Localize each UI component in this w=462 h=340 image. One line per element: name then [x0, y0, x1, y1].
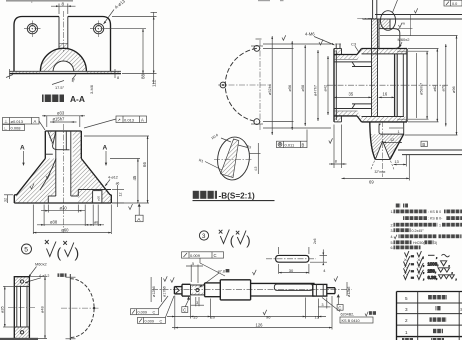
svg-text:2x6: 2x6	[313, 238, 317, 244]
svg-text:6.: 6.	[391, 246, 394, 250]
plate outline	[14, 17, 111, 72]
title	[193, 191, 218, 199]
right phi label	[346, 282, 348, 296]
svg-text:=: =	[411, 255, 414, 260]
svg-text:ø48: ø48	[40, 306, 45, 313]
bore	[55, 131, 57, 196]
svg-text:88: 88	[141, 73, 146, 79]
detail balloon B	[380, 11, 395, 31]
svg-text:ø7.8: ø7.8	[218, 269, 225, 273]
svg-text:3): 3)	[434, 241, 437, 245]
svg-text:(: (	[57, 245, 62, 261]
svg-text:0.013: 0.013	[124, 117, 135, 122]
bearing box	[313, 284, 327, 296]
svg-text:ø15h7: ø15h7	[53, 117, 66, 122]
hole left	[27, 24, 37, 34]
svg-text:(: (	[230, 233, 235, 248]
bearing label	[322, 298, 340, 312]
svg-text:100S,: 100S,	[428, 262, 439, 267]
svg-text:0.009: 0.009	[138, 311, 148, 315]
datum A	[135, 215, 143, 222]
svg-text:ø62: ø62	[432, 85, 437, 92]
svg-text:6.3S,: 6.3S,	[428, 275, 438, 280]
svg-text:66: 66	[142, 162, 147, 167]
bottom dims	[47, 205, 49, 213]
svg-text:): )	[246, 233, 250, 248]
tol box perpendicular	[3, 118, 40, 125]
svg-text:112: 112	[152, 79, 157, 87]
ring outline	[14, 277, 29, 340]
svg-text:12: 12	[119, 193, 123, 197]
datum C left	[187, 296, 190, 299]
svg-text:ø56: ø56	[287, 85, 292, 92]
svg-text:ø52h6: ø52h6	[267, 84, 272, 95]
hole right	[94, 24, 104, 34]
svg-text:13: 13	[395, 160, 399, 164]
svg-text:4.5: 4.5	[254, 166, 258, 171]
chamfer C3 diagonals	[357, 49, 362, 55]
svg-text:ø20: ø20	[97, 195, 101, 201]
svg-text:4.: 4.	[391, 235, 394, 239]
svg-text:0.009: 0.009	[145, 319, 155, 323]
svg-text:15: 15	[193, 314, 198, 319]
svg-text:ø8: ø8	[94, 220, 99, 225]
svg-text:ø58m7: ø58m7	[419, 83, 424, 95]
dim 69	[408, 155, 410, 181]
section 5 long	[251, 282, 315, 284]
phi7.8 keyway box	[191, 285, 205, 295]
curved inner cone line	[40, 159, 56, 191]
svg-text:A: A	[103, 145, 108, 152]
svg-text:ø0.013: ø0.013	[11, 119, 24, 124]
svg-text:16: 16	[383, 92, 388, 97]
svg-text:B: B	[422, 142, 425, 147]
svg-text:ø33: ø33	[57, 111, 65, 116]
stem to top edge	[372, 0, 374, 19]
plate base lines	[10, 70, 122, 72]
groove centerline cross	[357, 17, 376, 19]
svg-text:69: 69	[369, 179, 374, 184]
leaders	[221, 138, 231, 142]
svg-text:5: 5	[192, 262, 194, 266]
svg-text:3: 3	[322, 303, 324, 307]
svg-text:13: 13	[315, 315, 320, 320]
svg-text:1.: 1.	[391, 210, 394, 214]
svg-text:,: ,	[436, 255, 437, 260]
flange	[14, 194, 17, 196]
section 3	[204, 283, 206, 297]
svg-text:ø17h6: ø17h6	[162, 286, 166, 297]
svg-text:): )	[75, 245, 80, 261]
center slot	[58, 17, 60, 49]
svg-text:5.: 5.	[391, 241, 394, 245]
part outline	[45, 130, 81, 132]
M6 tapped hole in collar	[335, 44, 337, 49]
svg-text:1: 1	[398, 130, 400, 134]
top right cut tolerance box	[444, 0, 462, 6]
svg-text:,: ,	[456, 277, 457, 282]
svg-text:ø35: ø35	[0, 306, 4, 313]
svg-text:ø60: ø60	[61, 227, 69, 232]
svg-text:C: C	[214, 253, 217, 258]
small dim right	[249, 153, 261, 155]
svg-text:=: =	[411, 263, 414, 268]
title 단면도 A-A	[42, 95, 64, 103]
svg-text:30: 30	[289, 268, 294, 273]
svg-text:HrC50(: HrC50(	[413, 241, 425, 245]
svg-text:ø42: ø42	[323, 85, 328, 92]
long horizontal lines to edge	[398, 149, 462, 151]
svg-text:32°max: 32°max	[375, 170, 386, 174]
right stub	[327, 287, 335, 289]
svg-text:ø12h6: ø12h6	[152, 286, 156, 297]
svg-text:0.0: 0.0	[452, 2, 457, 6]
web / flange column with neck above	[371, 19, 373, 117]
svg-text:12: 12	[390, 138, 394, 142]
svg-text:: KS B 0: : KS B 0	[428, 210, 441, 214]
symbol equivalence lines	[405, 251, 450, 260]
svg-text:C3: C3	[351, 41, 357, 46]
shaft profile	[173, 287, 175, 294]
svg-text:1: 1	[405, 330, 408, 335]
svg-text:96: 96	[266, 314, 271, 319]
dim 3 right groove	[326, 298, 328, 309]
svg-text:=: =	[411, 276, 414, 281]
dim 35 bore	[334, 96, 372, 98]
svg-text:KS B 0410: KS B 0410	[342, 319, 360, 323]
left dim stack	[271, 36, 273, 135]
svg-text:126: 126	[256, 323, 264, 328]
svg-text:0.009: 0.009	[190, 253, 201, 258]
svg-text:20: 20	[211, 314, 216, 319]
svg-text:ø38: ø38	[50, 220, 58, 225]
svg-text:ø70: ø70	[440, 84, 445, 92]
svg-text:25S,: 25S,	[428, 268, 437, 273]
svg-text:32: 32	[3, 198, 7, 202]
svg-text:,: ,	[423, 277, 424, 282]
axis	[152, 289, 352, 291]
svg-text:0.011: 0.011	[285, 143, 295, 148]
svg-text:⊥: ⊥	[4, 119, 8, 124]
cut-off border top-left	[6, 0, 73, 2]
concentricity box	[277, 141, 308, 147]
bore lines	[334, 61, 372, 63]
svg-text:∟: ∟	[4, 126, 8, 131]
svg-text:A-A: A-A	[70, 94, 85, 104]
svg-text:45: 45	[132, 175, 137, 180]
svg-text:4-ø12: 4-ø12	[108, 175, 118, 179]
thread section verticals	[394, 54, 396, 117]
svg-text:ø47h7: ø47h7	[313, 85, 318, 96]
dome	[40, 48, 86, 71]
svg-text:C: C	[183, 308, 186, 313]
top/bottom wall hatch	[334, 49, 407, 60]
dim 3 small	[195, 297, 197, 306]
groove hatch right of neck	[379, 20, 390, 29]
right dim stack	[416, 53, 418, 118]
datum B box	[421, 141, 427, 146]
dim 8 top	[58, 4, 60, 15]
svg-text:=: =	[411, 269, 414, 274]
svg-text:C: C	[153, 311, 156, 315]
svg-text:: KS B 0-: : KS B 0-	[428, 217, 443, 221]
svg-text:A: A	[20, 145, 25, 152]
svg-text:B: B	[302, 143, 305, 148]
dim 12	[383, 141, 402, 143]
section 4 big	[219, 280, 221, 300]
svg-text:3: 3	[202, 233, 206, 240]
svg-text:3.: 3.	[391, 229, 394, 233]
left rotated diameter labels	[150, 277, 152, 302]
keyway plan view above	[276, 255, 309, 262]
svg-text:,: ,	[449, 263, 450, 268]
datum C right	[337, 294, 340, 297]
svg-text:M60x2: M60x2	[398, 37, 411, 42]
svg-text:8: 8	[335, 160, 337, 164]
tol box runout right	[84, 116, 147, 128]
svg-text:4-ø3.2: 4-ø3.2	[39, 274, 49, 278]
extension lines left	[263, 47, 294, 49]
dim 32 left edge	[7, 195, 9, 203]
sleeve outer	[362, 48, 408, 50]
svg-text:2: 2	[405, 318, 408, 323]
cone slants	[17, 159, 46, 195]
svg-text:17.5°: 17.5°	[55, 85, 65, 90]
dim 1 groove	[389, 127, 403, 129]
cut-off smudges top	[258, 0, 270, 2]
svg-text:8: 8	[62, 1, 65, 6]
svg-text:M60x2: M60x2	[35, 262, 47, 267]
axis centerline	[327, 84, 448, 86]
svg-text:5: 5	[405, 296, 408, 301]
svg-text:,: ,	[452, 270, 453, 275]
dim 45 / 66	[110, 158, 140, 160]
svg-text:ø58: ø58	[300, 85, 305, 92]
svg-text:ø30: ø30	[60, 206, 68, 211]
svg-text:3-M8: 3-M8	[89, 85, 94, 94]
roughness ticks	[30, 184, 34, 190]
svg-text:ø12h6: ø12h6	[347, 287, 351, 297]
svg-text:8: 8	[117, 75, 119, 80]
bottom notch and cone	[403, 122, 405, 134]
svg-text:0.008: 0.008	[11, 125, 22, 130]
svg-text:↗: ↗	[117, 118, 121, 123]
svg-text:C: C	[338, 306, 341, 311]
tol box 0.008	[3, 125, 25, 131]
hatches	[48, 132, 56, 147]
svg-text:A: A	[141, 117, 144, 122]
svg-text:A: A	[34, 119, 37, 124]
small roughness checks	[164, 276, 168, 281]
half disc side view	[69, 274, 71, 340]
svg-text:4-M6: 4-M6	[305, 32, 315, 37]
svg-text:C: C	[160, 319, 163, 323]
svg-text:2.: 2.	[391, 223, 394, 227]
dim 5 above keyway	[190, 265, 192, 283]
boss inner step	[53, 132, 64, 150]
keyway slot on shaft	[274, 284, 313, 290]
hub outline	[334, 54, 357, 56]
svg-text:1: 1	[439, 223, 441, 227]
dome+slot hatch	[40, 43, 86, 71]
dim 8 left	[333, 125, 335, 169]
dim 13	[394, 164, 407, 166]
svg-text:3: 3	[196, 301, 198, 305]
base hatch	[10, 72, 40, 74]
svg-text:0.2x45°: 0.2x45°	[412, 229, 425, 233]
right dims 88 / 112	[112, 16, 157, 18]
svg-text:ø96: ø96	[451, 86, 456, 93]
svg-text:5: 5	[24, 247, 28, 254]
dim 12 recess	[112, 189, 124, 191]
svg-text:3: 3	[405, 307, 408, 312]
left tolerance boxes	[131, 309, 159, 315]
collar left	[333, 49, 335, 122]
top tolerance box	[182, 252, 224, 258]
svg-text:35: 35	[349, 92, 354, 97]
svg-text:-B(S=2:1): -B(S=2:1)	[219, 191, 255, 200]
svg-text:6204B2,: 6204B2,	[341, 312, 355, 316]
ring dims	[4, 286, 6, 327]
bottom dim chain	[174, 296, 176, 330]
dim 16	[379, 96, 395, 98]
